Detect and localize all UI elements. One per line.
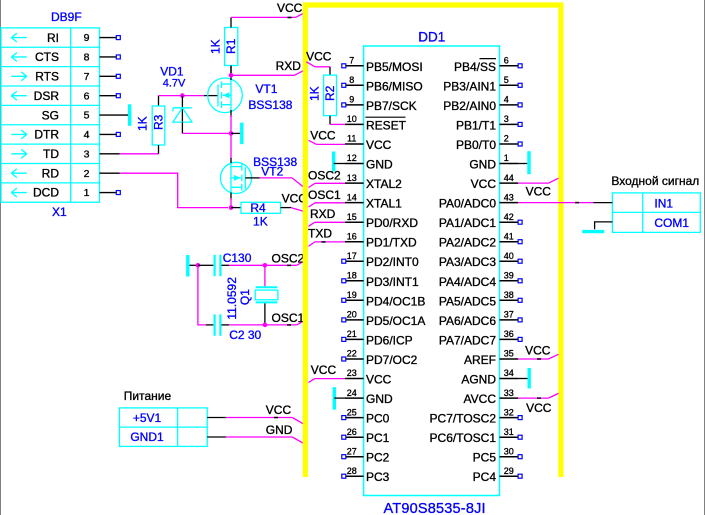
svg-text:34: 34	[504, 368, 514, 378]
ground (pin 1)	[527, 151, 530, 174]
svg-text:OSC2: OSC2	[272, 252, 305, 266]
sheet boundary (yellow)	[305, 5, 561, 477]
svg-text:9: 9	[349, 95, 354, 105]
junction VT1 drain / RXD	[229, 73, 234, 78]
pin 32 PC7/TOSC2	[430, 407, 523, 425]
svg-text:AT90S8535-8JI: AT90S8535-8JI	[384, 501, 486, 515]
svg-text:DD1: DD1	[418, 29, 445, 44]
svg-text:C2 30: C2 30	[229, 328, 261, 342]
junction crystal left top	[196, 263, 201, 268]
svg-text:PC4: PC4	[473, 470, 497, 484]
svg-text:42: 42	[504, 212, 514, 222]
svg-text:2: 2	[84, 168, 90, 180]
svg-text:11: 11	[347, 134, 356, 144]
svg-text:VD1: VD1	[160, 64, 184, 78]
svg-text:PC6/TOSC1: PC6/TOSC1	[430, 431, 497, 445]
resistor R1	[208, 17, 238, 75]
pin 10 RESET	[345, 114, 407, 132]
svg-text:GND: GND	[469, 158, 496, 172]
svg-text:PD2/INT0: PD2/INT0	[366, 255, 419, 269]
svg-text:36: 36	[504, 329, 514, 339]
svg-text:4.7V: 4.7V	[163, 78, 186, 90]
wire OSC2 net to port	[265, 264, 297, 266]
svg-text:PC2: PC2	[366, 451, 390, 465]
pin 29 PC4	[473, 466, 522, 484]
wire ground to C130	[190, 264, 198, 266]
svg-text:32: 32	[504, 407, 514, 417]
svg-text:6: 6	[504, 56, 509, 66]
pin 27 PC2	[342, 446, 390, 464]
pin 35 AREF	[464, 349, 518, 367]
svg-text:23: 23	[347, 368, 357, 378]
svg-text:10: 10	[347, 114, 357, 124]
svg-text:PD7/OC2: PD7/OC2	[366, 353, 418, 367]
wire pin 12 to ground	[334, 163, 345, 165]
svg-text:CTS: CTS	[35, 50, 59, 64]
svg-text:VCC: VCC	[266, 403, 292, 417]
svg-text:R1: R1	[224, 38, 238, 54]
svg-text:29: 29	[504, 466, 514, 476]
pin 19 PD4/OC1B	[342, 290, 426, 308]
wire RD net to VT2 source	[120, 173, 228, 207]
wire GND1 to GND port	[207, 436, 226, 438]
pin 36 PA7/ADC7	[439, 329, 522, 347]
svg-text:1: 1	[504, 153, 509, 163]
wire VCC net (top)	[231, 16, 295, 18]
svg-text:14: 14	[347, 192, 357, 202]
pin 7 PB5/MOSI	[342, 56, 423, 74]
svg-text:RESET: RESET	[366, 118, 407, 132]
svg-text:3: 3	[504, 114, 509, 124]
pin 2 PB0/T0	[456, 134, 522, 152]
svg-text:PA6/ADC6: PA6/ADC6	[439, 314, 496, 328]
svg-text:PC5: PC5	[473, 451, 497, 465]
wire VCC from pin 35 AREF	[518, 358, 548, 360]
pin 31 PC6/TOSC1	[430, 427, 523, 445]
ground (pin 12)	[332, 152, 335, 172]
wire pin 2 (RD) stub	[100, 172, 120, 174]
connector X1 DB9F	[1, 10, 100, 219]
pin 39 PA4/ADC4	[439, 271, 522, 289]
capacitor C130	[198, 251, 252, 276]
svg-text:BSS138: BSS138	[248, 98, 292, 112]
pin 21 PD6/ICP	[342, 329, 413, 347]
svg-text:41: 41	[504, 231, 514, 241]
wire VCC from pin 44	[518, 182, 548, 184]
pin 17 PD2/INT0	[342, 251, 419, 269]
svg-text:1K: 1K	[253, 215, 268, 229]
wire TD net	[120, 153, 159, 155]
no-connect pin 9	[116, 36, 120, 40]
svg-text:PB0/T0: PB0/T0	[456, 138, 496, 152]
svg-text:PB5/MOSI: PB5/MOSI	[366, 60, 423, 74]
svg-text:OSC2: OSC2	[308, 168, 341, 182]
svg-text:PA1/ADC1: PA1/ADC1	[439, 216, 496, 230]
svg-text:Входной сигнал: Входной сигнал	[611, 174, 699, 188]
svg-text:OSC1: OSC1	[308, 188, 341, 202]
svg-text:15: 15	[347, 212, 357, 222]
connector Питание (+5V1/GND1)	[119, 389, 207, 447]
pin 25 PC0	[342, 407, 390, 425]
wire OSC2 to pin 13	[309, 183, 316, 187]
wire PA0/ADC0 to IN1	[518, 202, 593, 204]
svg-text:RTS: RTS	[35, 70, 59, 84]
svg-text:TD: TD	[43, 147, 59, 161]
svg-text:PD5/OC1A: PD5/OC1A	[366, 314, 425, 328]
wire pin 3 (TD) stub	[100, 153, 120, 155]
wire C2 to crystal bottom	[229, 324, 265, 326]
wire pin 9 (RI) stub	[100, 37, 117, 39]
pin 15 PD0/RXD	[345, 212, 418, 230]
ground (VT1 source)	[240, 123, 243, 144]
pin 20 PD5/OC1A	[342, 310, 426, 328]
wire VCC from pin 33 AVCC	[518, 397, 548, 399]
wire R4 to VCC port	[281, 207, 292, 209]
svg-text:RXD: RXD	[310, 207, 336, 221]
wire C130 to crystal node	[229, 264, 265, 266]
svg-text:C130: C130	[223, 251, 252, 265]
svg-text:GND: GND	[366, 392, 393, 406]
wire OSC1 to pin 14	[309, 203, 316, 207]
svg-text:AREF: AREF	[464, 353, 496, 367]
svg-text:Питание: Питание	[124, 389, 172, 403]
svg-text:38: 38	[504, 290, 514, 300]
svg-text:VCC: VCC	[471, 177, 497, 191]
pin 43 PA0/ADC0	[439, 192, 518, 210]
svg-text:COM1: COM1	[654, 216, 689, 230]
no-connect pin 8	[116, 55, 120, 59]
IC DD1 AT90S8535-8JI body	[364, 46, 500, 496]
no-connect pin 4	[116, 132, 120, 136]
svg-text:3: 3	[84, 148, 90, 160]
svg-text:37: 37	[504, 310, 514, 320]
connector Входной сигнал (IN1/COM1)	[611, 174, 700, 233]
svg-text:PA5/ADC5: PA5/ADC5	[439, 294, 496, 308]
ground (crystal)	[186, 255, 189, 276]
resistor R4	[231, 201, 281, 228]
crystal Q1 11.0592	[225, 265, 278, 325]
wire pin 1 (DCD) stub	[100, 192, 117, 194]
svg-text:GND: GND	[266, 423, 293, 437]
ground (SG)	[128, 104, 131, 126]
svg-text:VT1: VT1	[255, 82, 277, 96]
svg-text:IN1: IN1	[654, 196, 673, 210]
pin 30 PC5	[473, 446, 522, 464]
svg-text:PC1: PC1	[366, 431, 390, 445]
wire VT2 gate to OSC2 port	[245, 177, 259, 179]
svg-text:PB6/MISO: PB6/MISO	[366, 79, 423, 93]
wire VD1 anode to VT1 source	[182, 132, 231, 134]
pin 9 PB7/SCK	[342, 95, 417, 113]
pin 24 GND	[345, 388, 393, 406]
wire RXD to pin 15	[309, 222, 315, 226]
svg-text:PB4/SS: PB4/SS	[454, 60, 496, 74]
wire to ground	[231, 132, 240, 134]
capacitor C2 30	[206, 314, 262, 342]
svg-text:RD: RD	[42, 166, 60, 180]
pin 40 PA3/ADC3	[439, 251, 522, 269]
svg-text:1K: 1K	[208, 39, 222, 54]
svg-text:19: 19	[347, 290, 357, 300]
svg-text:XTAL1: XTAL1	[366, 197, 402, 211]
pin 26 PC1	[342, 427, 390, 445]
transistor VT2 BSS138	[220, 155, 297, 200]
svg-text:VCC: VCC	[277, 1, 303, 15]
svg-text:+5V1: +5V1	[133, 411, 162, 425]
svg-text:25: 25	[347, 407, 357, 417]
pin 1 GND	[469, 153, 518, 171]
ground (pin 34)	[528, 368, 531, 389]
svg-text:PC0: PC0	[366, 412, 390, 426]
svg-text:7: 7	[84, 71, 90, 83]
wire left vertical to C2	[198, 265, 206, 325]
svg-text:DTR: DTR	[34, 128, 59, 142]
svg-text:OSC1: OSC1	[272, 311, 305, 325]
wire pin 8 (CTS) stub	[100, 56, 117, 58]
svg-text:PD1/TXD: PD1/TXD	[366, 236, 417, 250]
ground (COM1)	[582, 230, 604, 233]
wire TXD to pin 16	[309, 242, 315, 246]
svg-text:22: 22	[347, 349, 357, 359]
wire VCC to R2	[306, 62, 315, 67]
junction VD1 top	[180, 93, 185, 98]
svg-text:RI: RI	[47, 31, 59, 45]
no-connect pin 7	[116, 74, 120, 78]
pin 34 AGND	[461, 368, 518, 386]
svg-text:16: 16	[347, 231, 357, 241]
svg-text:DCD: DCD	[33, 186, 59, 200]
svg-text:XTAL2: XTAL2	[366, 177, 402, 191]
wire pin 24 to ground	[334, 397, 345, 399]
svg-text:VCC: VCC	[311, 363, 337, 377]
svg-text:PC7/TOSC2: PC7/TOSC2	[430, 412, 497, 426]
wire R3/VD1/VT1-gate node	[159, 95, 205, 97]
pin 5 PB3/AIN1	[443, 75, 522, 93]
svg-text:PB3/AIN1: PB3/AIN1	[443, 79, 496, 93]
pin 12 GND	[345, 153, 393, 171]
svg-text:5: 5	[504, 75, 509, 85]
junction VT2 source / RD / R4	[229, 205, 234, 210]
svg-text:PB1/T1: PB1/T1	[456, 118, 496, 132]
wire pin 6 (DSR) stub	[100, 95, 117, 97]
svg-text:18: 18	[347, 271, 357, 281]
svg-text:PD0/RXD: PD0/RXD	[366, 216, 418, 230]
svg-text:PB7/SCK: PB7/SCK	[366, 99, 417, 113]
wire pin 1 to ground	[518, 163, 527, 165]
pin 22 PD7/OC2	[342, 349, 418, 367]
svg-text:DB9F: DB9F	[51, 10, 82, 24]
svg-text:PC3: PC3	[366, 470, 390, 484]
svg-text:1K: 1K	[136, 116, 150, 131]
svg-text:R3: R3	[152, 114, 166, 130]
svg-text:PA4/ADC4: PA4/ADC4	[439, 275, 496, 289]
svg-text:40: 40	[504, 251, 514, 261]
svg-text:8: 8	[84, 52, 90, 64]
ground (pin 24)	[333, 387, 336, 410]
junction VT1 source	[229, 131, 234, 136]
pin 18 PD3/INT1	[342, 271, 419, 289]
svg-text:9: 9	[84, 32, 90, 44]
pin 4 PB2/AIN0	[443, 95, 522, 113]
svg-text:TXD: TXD	[308, 226, 332, 240]
wire pin 7 (RTS) stub	[100, 75, 117, 77]
pin 23 VCC	[345, 368, 392, 386]
svg-text:PA7/ADC7: PA7/ADC7	[439, 333, 496, 347]
svg-text:PD3/INT1: PD3/INT1	[366, 275, 419, 289]
pin 11 VCC	[345, 134, 392, 152]
resistor R2	[307, 67, 337, 125]
pin 8 PB6/MISO	[342, 75, 423, 93]
svg-text:24: 24	[347, 388, 357, 398]
zener diode VD1 4.7V	[160, 64, 192, 133]
wire pin 34 AGND to ground	[518, 378, 527, 380]
svg-text:VCC: VCC	[526, 185, 552, 199]
svg-text:SG: SG	[42, 108, 59, 122]
svg-text:PB2/AIN0: PB2/AIN0	[443, 99, 496, 113]
svg-text:2: 2	[504, 134, 509, 144]
wire IN1 lead	[594, 202, 613, 204]
pin 28 PC3	[342, 466, 390, 484]
svg-text:PA0/ADC0: PA0/ADC0	[439, 197, 496, 211]
pin 14 XTAL1	[345, 192, 402, 210]
pin 3 PB1/T1	[456, 114, 522, 132]
svg-text:PD4/OC1B: PD4/OC1B	[366, 294, 425, 308]
svg-text:GND: GND	[366, 158, 393, 172]
svg-text:VT2: VT2	[261, 164, 283, 178]
svg-text:VCC: VCC	[306, 50, 332, 64]
pin 16 PD1/TXD	[345, 231, 417, 249]
svg-text:X1: X1	[52, 205, 67, 219]
pin 13 XTAL2	[345, 173, 402, 191]
svg-text:1: 1	[84, 187, 90, 199]
svg-text:R4: R4	[250, 201, 266, 215]
svg-text:39: 39	[504, 271, 514, 281]
svg-text:43: 43	[504, 192, 514, 202]
svg-text:VCC: VCC	[366, 138, 392, 152]
svg-text:VCC: VCC	[310, 129, 336, 143]
wire VCC to pin 11	[309, 140, 317, 144]
svg-text:1K: 1K	[307, 86, 321, 101]
pin 37 PA6/ADC6	[439, 310, 522, 328]
svg-text:31: 31	[504, 427, 514, 437]
svg-text:28: 28	[347, 466, 357, 476]
svg-text:21: 21	[347, 329, 357, 339]
svg-text:7: 7	[349, 56, 354, 66]
pin 38 PA5/ADC5	[439, 290, 522, 308]
svg-text:44: 44	[504, 173, 514, 183]
wire VT2 source down	[230, 198, 232, 208]
svg-text:20: 20	[347, 310, 357, 320]
junction crystal top	[263, 263, 268, 268]
svg-text:35: 35	[504, 349, 514, 359]
wire VT1 source to VT2 drain	[230, 115, 232, 159]
wire COM1 to ground	[595, 222, 613, 229]
svg-text:5: 5	[84, 110, 90, 122]
svg-text:RXD: RXD	[276, 59, 302, 73]
transistor VT1 BSS138	[208, 66, 293, 118]
wire +5V1 to VCC port	[207, 417, 226, 419]
wire pin 5 (SG) to ground	[100, 114, 129, 116]
pin 6 PB4/SS	[454, 56, 522, 74]
no-connect pin 1	[116, 191, 120, 195]
svg-text:17: 17	[347, 251, 357, 261]
pin 44 VCC	[471, 173, 519, 191]
pin 42 PA1/ADC1	[439, 212, 522, 230]
wire VCC to pin 23	[309, 379, 315, 383]
svg-text:8: 8	[349, 75, 354, 85]
pin 41 PA2/ADC2	[439, 231, 522, 249]
svg-text:27: 27	[347, 446, 357, 456]
wire RXD net (left)	[231, 74, 295, 76]
svg-text:4: 4	[504, 95, 509, 105]
svg-text:AGND: AGND	[461, 373, 496, 387]
wire pin 4 (DTR) stub	[100, 133, 117, 135]
wire R2 to pin 10 RESET	[330, 123, 345, 125]
pin 33 AVCC	[464, 388, 519, 406]
svg-text:13: 13	[347, 173, 357, 183]
svg-text:Q1: Q1	[238, 289, 252, 305]
svg-text:PA3/ADC3: PA3/ADC3	[439, 255, 496, 269]
no-connect pin 6	[116, 94, 120, 98]
junction crystal bottom	[263, 323, 268, 328]
svg-text:VCC: VCC	[366, 373, 392, 387]
svg-text:26: 26	[347, 427, 357, 437]
svg-text:33: 33	[504, 388, 514, 398]
svg-text:R2: R2	[323, 85, 337, 101]
wire OSC1 net to port	[265, 324, 297, 326]
svg-text:12: 12	[347, 153, 357, 163]
svg-text:PD6/ICP: PD6/ICP	[366, 333, 413, 347]
svg-text:AVCC: AVCC	[464, 392, 497, 406]
svg-text:6: 6	[84, 90, 90, 102]
svg-text:11.0592: 11.0592	[225, 277, 239, 320]
svg-text:VCC: VCC	[525, 343, 551, 357]
svg-text:30: 30	[504, 446, 514, 456]
resistor R3	[136, 96, 166, 154]
svg-text:DSR: DSR	[34, 89, 60, 103]
svg-text:4: 4	[84, 129, 90, 141]
svg-text:PA2/ADC2: PA2/ADC2	[439, 236, 496, 250]
svg-text:GND1: GND1	[130, 430, 164, 444]
svg-text:VCC: VCC	[526, 401, 552, 415]
